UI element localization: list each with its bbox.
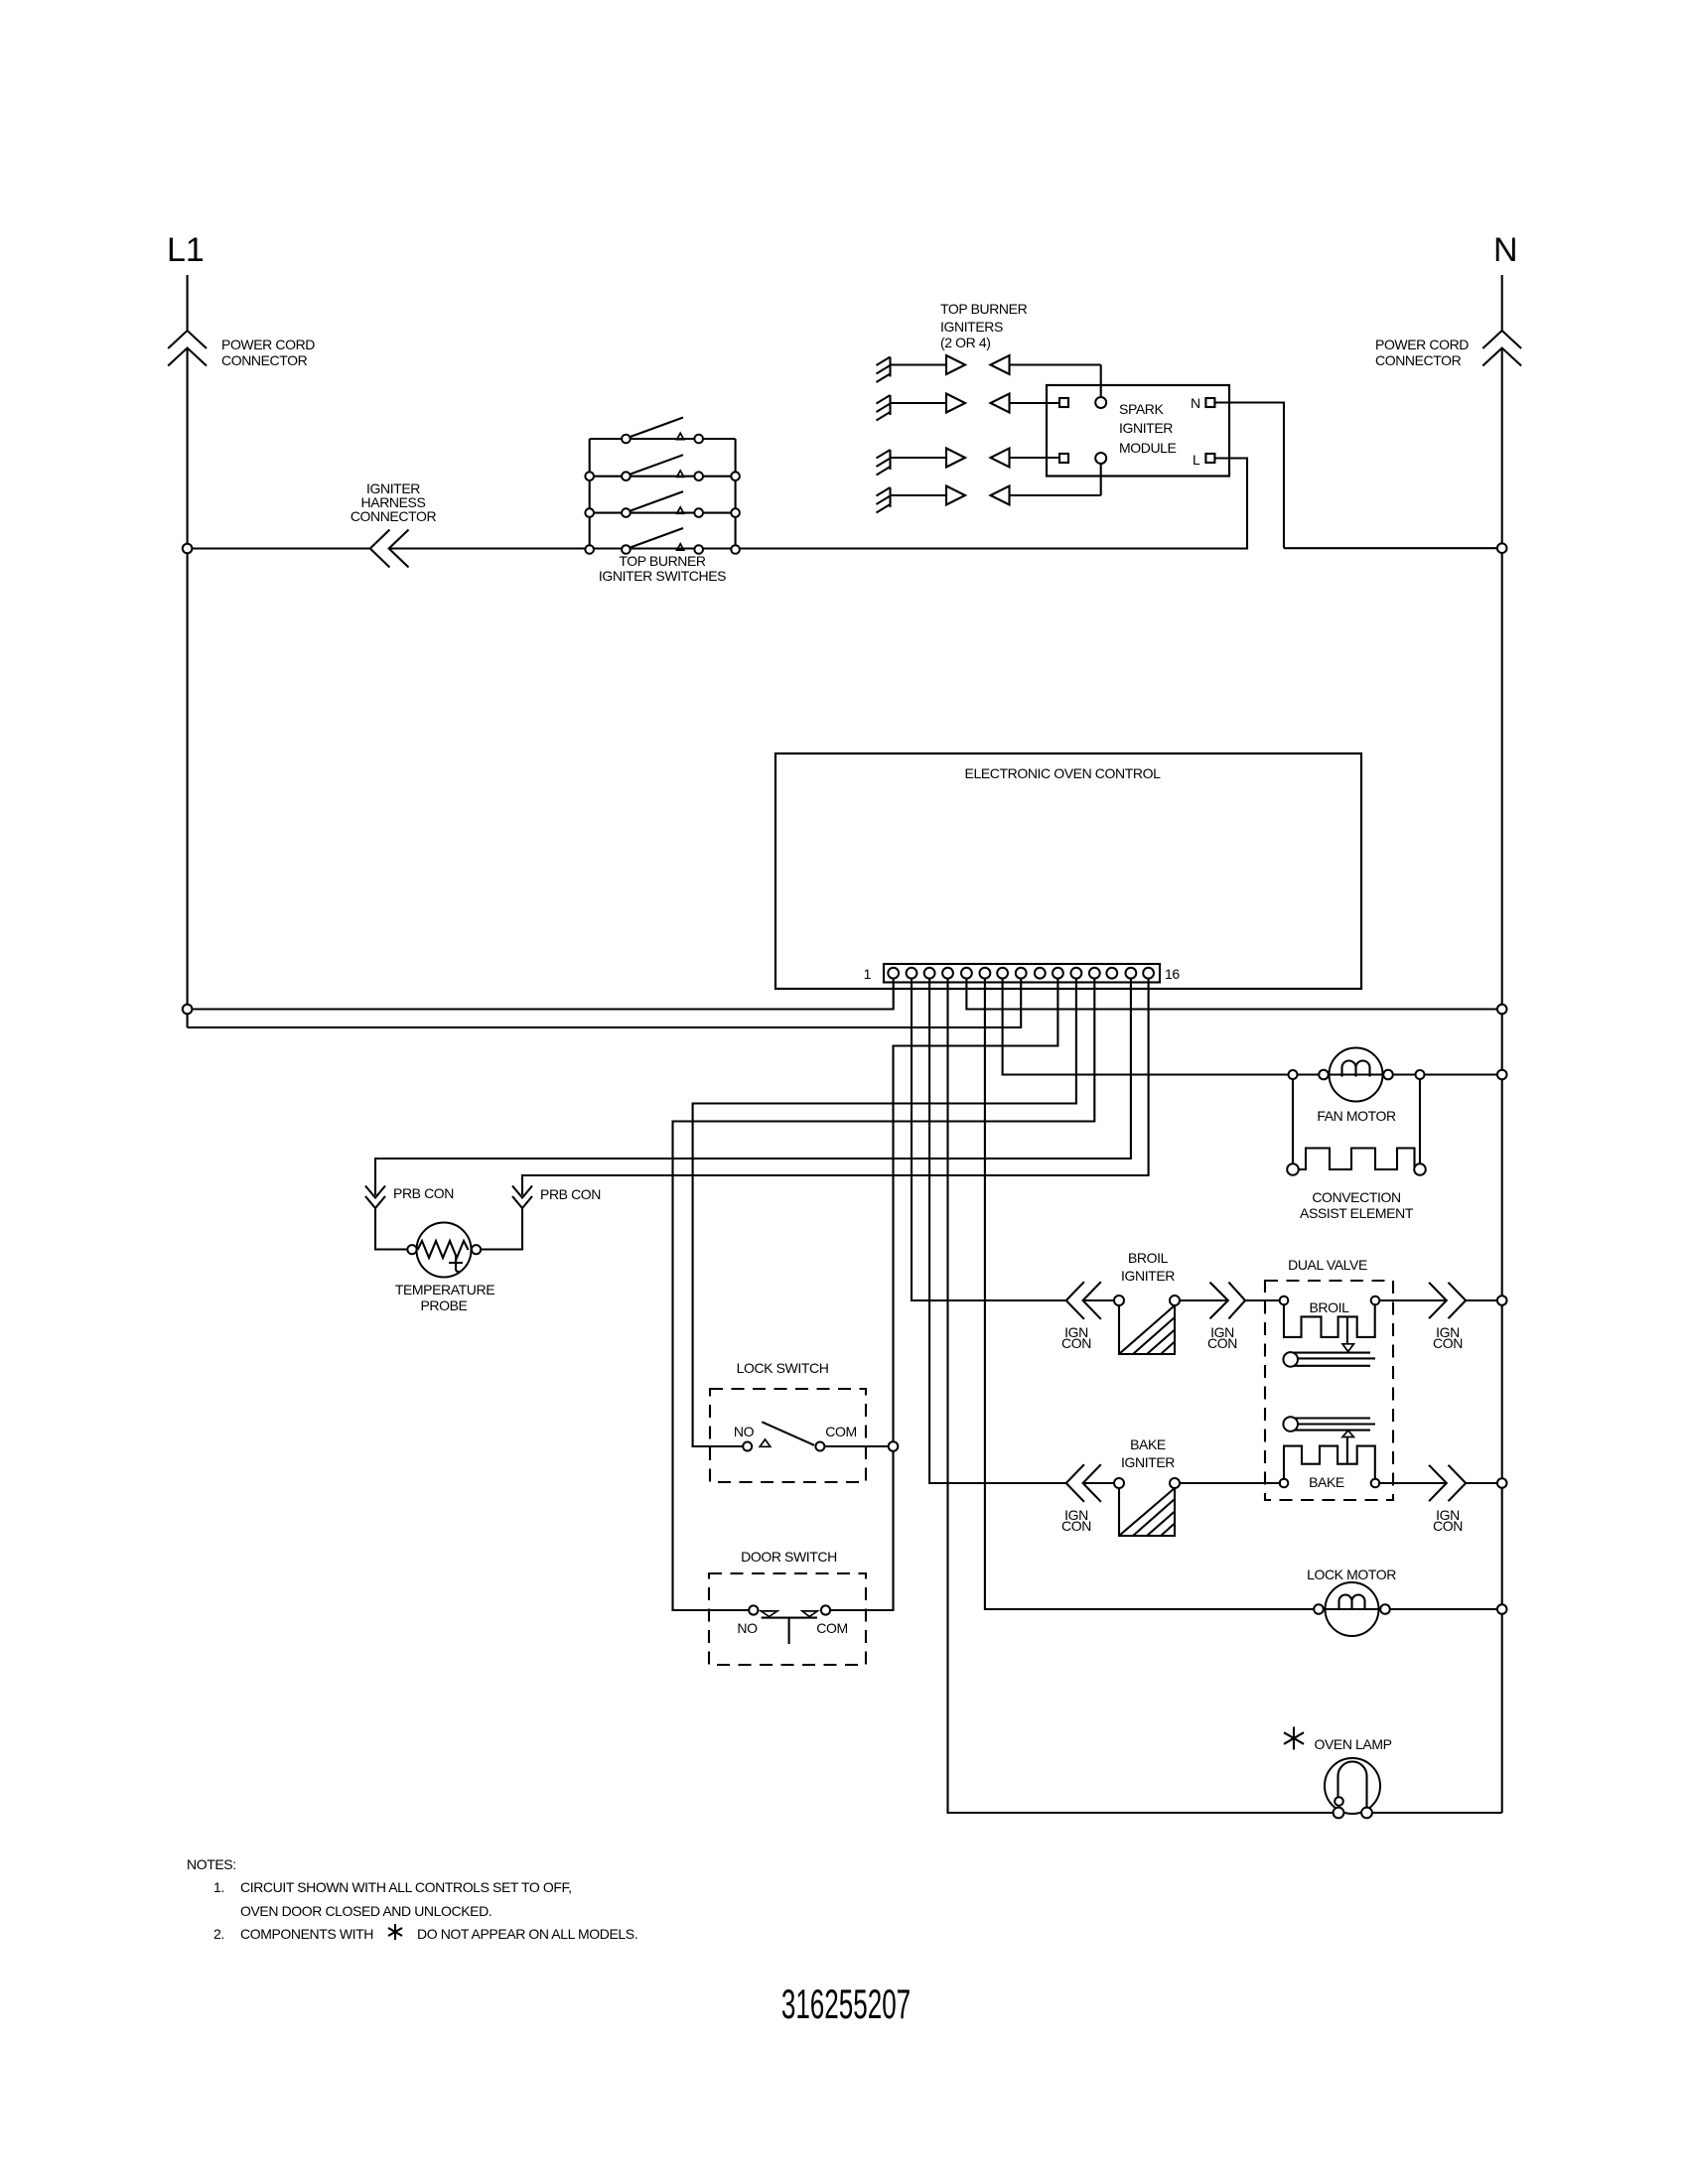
svg-text:CONVECTION: CONVECTION [1312,1189,1400,1205]
svg-text:COM: COM [816,1620,847,1636]
svg-text:CON: CON [1061,1518,1091,1534]
svg-text:2.: 2. [213,1926,224,1942]
svg-text:IGNITER: IGNITER [1121,1454,1175,1470]
svg-text:TOP BURNER: TOP BURNER [619,553,706,569]
svg-text:OVEN LAMP: OVEN LAMP [1314,1736,1391,1752]
svg-text:CIRCUIT SHOWN WITH ALL CONTROL: CIRCUIT SHOWN WITH ALL CONTROLS SET TO O… [240,1879,572,1895]
svg-text:IGNITER: IGNITER [1119,420,1173,436]
svg-text:PROBE: PROBE [420,1297,467,1313]
svg-text:BAKE: BAKE [1309,1474,1344,1490]
svg-text:IGNITER SWITCHES: IGNITER SWITCHES [599,568,726,584]
svg-text:1: 1 [864,966,872,982]
svg-text:NO: NO [737,1620,758,1636]
svg-text:PRB CON: PRB CON [540,1186,601,1202]
svg-text:ELECTRONIC OVEN CONTROL: ELECTRONIC OVEN CONTROL [965,765,1162,781]
svg-text:1.: 1. [213,1879,224,1895]
svg-text:IGNITERS: IGNITERS [940,319,1003,335]
svg-text:MODULE: MODULE [1119,440,1177,456]
svg-text:DUAL VALVE: DUAL VALVE [1288,1257,1367,1273]
svg-text:SPARK: SPARK [1119,401,1164,417]
svg-text:CONNECTOR: CONNECTOR [221,352,308,368]
svg-text:POWER CORD: POWER CORD [1375,337,1469,352]
svg-text:DOOR SWITCH: DOOR SWITCH [741,1549,837,1565]
svg-text:IGNITER: IGNITER [1121,1268,1175,1284]
svg-text:CONNECTOR: CONNECTOR [1375,352,1462,368]
svg-text:LOCK MOTOR: LOCK MOTOR [1307,1567,1396,1582]
svg-text:CONNECTOR: CONNECTOR [351,508,437,524]
svg-text:CON: CON [1433,1518,1463,1534]
svg-text:N: N [1493,231,1518,269]
svg-text:OVEN DOOR CLOSED AND UNLOCKED.: OVEN DOOR CLOSED AND UNLOCKED. [240,1903,492,1919]
svg-text:BROIL: BROIL [1309,1299,1349,1315]
svg-text:16: 16 [1165,966,1180,982]
svg-text:TEMPERATURE: TEMPERATURE [395,1282,494,1297]
svg-text:BROIL: BROIL [1128,1250,1169,1266]
svg-text:BAKE: BAKE [1130,1436,1166,1452]
svg-text:PRB CON: PRB CON [393,1185,454,1201]
svg-text:CON: CON [1061,1335,1091,1351]
svg-text:TOP BURNER: TOP BURNER [940,301,1028,317]
svg-text:NOTES:: NOTES: [187,1856,236,1872]
svg-text:POWER CORD: POWER CORD [221,337,315,352]
svg-text:316255207: 316255207 [781,1981,911,2028]
svg-text:CON: CON [1433,1335,1463,1351]
svg-text:N: N [1191,395,1200,411]
svg-text:ASSIST ELEMENT: ASSIST ELEMENT [1300,1205,1414,1221]
svg-text:L: L [1193,452,1200,468]
svg-text:COM: COM [825,1424,856,1439]
svg-text:L1: L1 [167,231,205,269]
svg-text:NO: NO [734,1424,755,1439]
svg-text:DO NOT APPEAR ON ALL MODELS.: DO NOT APPEAR ON ALL MODELS. [417,1926,637,1942]
svg-text:LOCK SWITCH: LOCK SWITCH [737,1360,829,1376]
svg-text:COMPONENTS WITH: COMPONENTS WITH [240,1926,373,1942]
svg-text:CON: CON [1207,1335,1237,1351]
svg-text:FAN MOTOR: FAN MOTOR [1317,1108,1396,1124]
svg-text:(2 OR 4): (2 OR 4) [940,335,990,350]
